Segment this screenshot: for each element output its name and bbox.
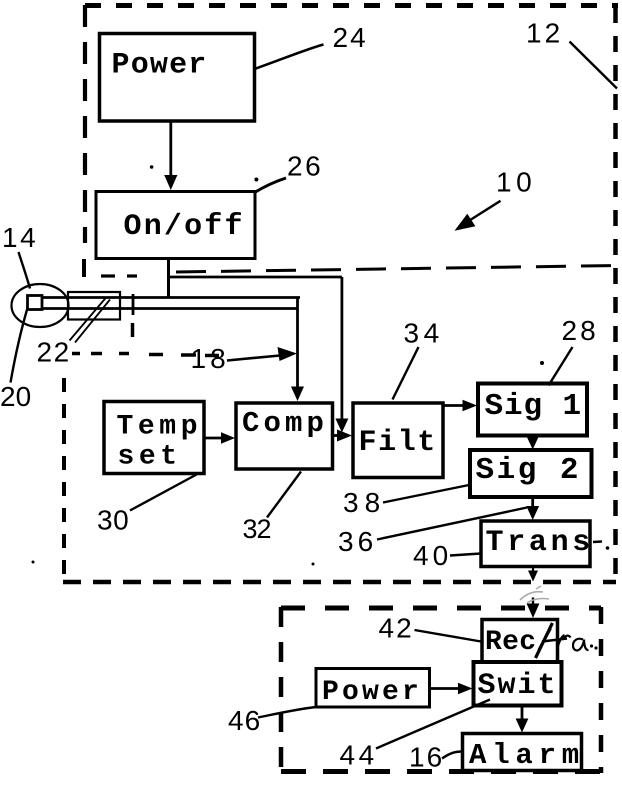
box 44 Swit [474, 662, 562, 706]
leader line to 30 [130, 475, 197, 511]
svg-text:Power: Power [322, 677, 422, 708]
dashed box 22 left border pieces [82, 259, 86, 277]
box 42 Rec [482, 620, 558, 664]
scan speck above sig 1 [540, 361, 544, 365]
middle dashed box left border [62, 378, 66, 583]
svg-text:set: set [118, 442, 182, 473]
sensor tip square 20 [28, 296, 43, 310]
dashed enclosure 12 top border [85, 3, 618, 8]
handwritten tra annotation over Rec [536, 623, 589, 658]
leader line to 38 [383, 485, 469, 503]
svg-text:Temp: Temp [117, 412, 203, 443]
sensor housing rectangle [68, 292, 120, 320]
svg-text:34: 34 [404, 318, 444, 349]
wire: on/off stub down [167, 258, 170, 297]
middle dashed box bottom border [63, 580, 616, 585]
svg-text:16: 16 [409, 742, 444, 773]
wire: lead down to comparator [296, 297, 299, 389]
dashed enclosure 12/middle right border [613, 7, 618, 582]
wire: comp to filt [333, 434, 340, 437]
svg-text:22: 22 [37, 337, 71, 368]
leader line to 34 [393, 347, 419, 400]
svg-text:46: 46 [228, 705, 261, 736]
svg-text:Trans: Trans [486, 526, 595, 560]
svg-text:Alarm: Alarm [469, 739, 585, 772]
wire: branch down to comp/filt junction [340, 277, 343, 420]
svg-text:18: 18 [191, 343, 230, 374]
leader line to 12 [570, 42, 618, 89]
svg-text:Filt: Filt [359, 426, 437, 460]
wire: sig 2 to trans [531, 497, 534, 507]
connector tick on leads [132, 294, 135, 315]
leader slashes to 22 [70, 297, 107, 341]
svg-text:Sig 2: Sig 2 [476, 453, 582, 488]
dashed enclosure 12 left border [83, 5, 87, 243]
wire: trans output down [532, 567, 534, 573]
bottom dashed box left border [279, 607, 284, 773]
box 32 Comp [236, 403, 333, 469]
box 16 Alarm [463, 734, 586, 773]
leader line to 14 [19, 252, 31, 289]
wire: temp set to comp [204, 437, 222, 440]
svg-text:20: 20 [0, 381, 31, 412]
scan marks right of trans [593, 540, 602, 543]
box 24 Power [100, 34, 255, 122]
svg-text:Swit: Swit [478, 669, 558, 703]
scan speck near 26 [254, 178, 258, 182]
scan speck lower left [32, 561, 35, 564]
wire: filt to sig 1 [443, 404, 463, 407]
leader line to 46 [258, 707, 317, 718]
svg-text:12: 12 [526, 18, 563, 49]
svg-text:Comp: Comp [242, 407, 328, 440]
leader line to 28 [549, 347, 573, 386]
faint pencil smudge above rec arrow [520, 586, 549, 603]
svg-text:36: 36 [338, 526, 377, 557]
svg-text:44: 44 [340, 740, 378, 771]
leader line to 42 [415, 630, 482, 642]
leader line to 24 [255, 45, 324, 70]
svg-text:14: 14 [2, 222, 38, 253]
scan speck left of 26 [150, 165, 154, 169]
probe bulb ellipse 14 [12, 284, 69, 327]
bottom dashed box 44/16 unit: top border [281, 606, 601, 611]
leader line to 44 [376, 700, 490, 749]
box 28 Sig 1 [478, 384, 587, 436]
dashed box 22 right border dash [131, 323, 135, 337]
wire: on/off branch right [169, 276, 342, 279]
svg-text:Power: Power [112, 49, 208, 83]
box 34 Filt [353, 403, 443, 478]
leader line to 36 [377, 508, 527, 540]
leader line to 32 [267, 472, 301, 518]
arrow 18 [227, 356, 280, 361]
svg-text:Sig 1: Sig 1 [485, 389, 583, 424]
leader line to 40 [450, 554, 481, 556]
svg-text:30: 30 [97, 505, 129, 536]
dashed box 22 bottom border dashes [72, 354, 219, 356]
svg-text:24: 24 [333, 22, 368, 53]
sensor lead wire bottom [33, 307, 299, 310]
svg-text:26: 26 [287, 151, 323, 182]
wire: into rec [532, 598, 534, 606]
svg-text:10: 10 [496, 167, 536, 198]
leader line to 20 [11, 308, 28, 383]
svg-text:28: 28 [562, 315, 599, 346]
box Sig 2 [470, 450, 592, 497]
box 46 Power [316, 669, 430, 709]
svg-text:On/off: On/off [124, 210, 245, 244]
box 30 Temp set [104, 402, 204, 474]
bottom dashed box right border [599, 607, 604, 773]
leader line to 16 [442, 752, 462, 759]
leader line to 26 [255, 178, 287, 193]
svg-text:38: 38 [343, 487, 386, 518]
svg-text:32: 32 [243, 514, 271, 544]
wire: power 46 to swit [430, 687, 462, 690]
wire: sig 1 to sig 2 [531, 436, 534, 439]
bottom dashed box bottom border [281, 769, 601, 774]
svg-text:40: 40 [413, 540, 452, 571]
sensor lead wire top [38, 296, 300, 299]
divider small dashes left of stub [101, 274, 115, 277]
svg-text:42: 42 [379, 613, 414, 644]
box 26 On/off [96, 192, 255, 259]
arrow 10 [467, 201, 501, 222]
dashed divider between unit 12 and middle section [176, 266, 618, 273]
wire: power to on/off [169, 121, 172, 176]
wire: swit to alarm [521, 706, 524, 721]
box 40 Trans [481, 521, 594, 567]
